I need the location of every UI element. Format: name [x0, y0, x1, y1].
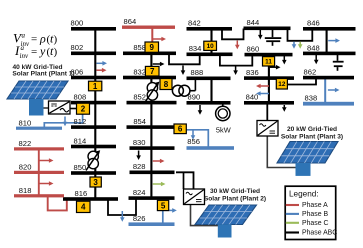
- svg-text:852: 852: [133, 93, 146, 102]
- svg-text:Legend:: Legend:: [289, 189, 319, 198]
- svg-text:856: 856: [187, 137, 200, 146]
- svg-text:836: 836: [246, 68, 259, 77]
- svg-text:Phase A: Phase A: [302, 202, 328, 209]
- svg-text:846: 846: [307, 19, 320, 28]
- svg-text:858: 858: [133, 43, 146, 52]
- svg-text:816: 816: [75, 189, 88, 198]
- svg-text:802: 802: [71, 43, 84, 52]
- svg-text:808: 808: [74, 93, 87, 102]
- svg-text:814: 814: [74, 136, 87, 145]
- svg-text:828: 828: [133, 162, 146, 171]
- svg-text:Solar Plant (Plant 2): Solar Plant (Plant 2): [204, 196, 266, 203]
- svg-text:Solar Plant (Plant 1): Solar Plant (Plant 1): [12, 71, 74, 78]
- svg-text:11: 11: [265, 59, 272, 66]
- svg-text:12: 12: [278, 81, 286, 88]
- svg-text:830: 830: [133, 138, 146, 147]
- svg-text:1: 1: [93, 82, 98, 91]
- svg-text:10: 10: [207, 43, 215, 50]
- svg-text:832: 832: [133, 67, 146, 76]
- svg-text:800: 800: [71, 19, 84, 28]
- svg-text:20 kW Grid-Tied: 20 kW Grid-Tied: [287, 126, 337, 133]
- svg-text:Solar Plant (Plant 3): Solar Plant (Plant 3): [281, 134, 343, 141]
- svg-text:8: 8: [164, 80, 169, 89]
- svg-text:854: 854: [133, 117, 146, 126]
- svg-text:Phase C: Phase C: [302, 220, 328, 227]
- svg-text:5kW: 5kW: [216, 126, 231, 135]
- svg-text:30 kW Grid-Tied: 30 kW Grid-Tied: [210, 188, 260, 195]
- svg-text:850: 850: [74, 163, 87, 172]
- svg-text:848: 848: [307, 43, 320, 52]
- svg-text:824: 824: [133, 188, 146, 197]
- svg-text:7: 7: [150, 67, 155, 76]
- svg-text:844: 844: [247, 18, 260, 27]
- svg-text:9: 9: [150, 43, 155, 52]
- svg-text:3: 3: [93, 178, 98, 187]
- svg-text:834: 834: [189, 44, 202, 53]
- svg-text:890: 890: [188, 93, 201, 102]
- svg-text:Phase B: Phase B: [302, 211, 328, 218]
- svg-text:820: 820: [19, 163, 32, 172]
- svg-text:812: 812: [74, 117, 87, 126]
- svg-text:888: 888: [191, 68, 204, 77]
- svg-text:Vainv= ρ(t) Iainv= y(t): Vainv= ρ(t) Iainv= y(t): [13, 30, 61, 61]
- svg-text:2: 2: [81, 105, 86, 114]
- svg-text:838: 838: [305, 94, 318, 103]
- svg-text:864: 864: [124, 17, 137, 26]
- svg-text:862: 862: [304, 68, 317, 77]
- svg-text:5: 5: [161, 201, 166, 210]
- svg-text:822: 822: [19, 139, 32, 148]
- svg-text:818: 818: [19, 186, 32, 195]
- svg-text:840: 840: [246, 93, 259, 102]
- svg-text:860: 860: [247, 45, 260, 54]
- svg-text:842: 842: [188, 19, 201, 28]
- svg-text:Phase ABC: Phase ABC: [302, 230, 337, 237]
- svg-text:4: 4: [81, 203, 86, 212]
- svg-text:826: 826: [133, 214, 146, 223]
- svg-text:810: 810: [19, 118, 32, 127]
- svg-text:6: 6: [178, 125, 183, 134]
